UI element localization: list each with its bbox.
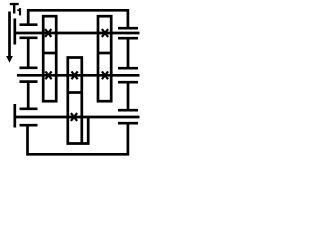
bottom rail wire [28,123,128,154]
node B wire [17,74,140,77]
x mark R2 upper [72,71,78,79]
capacitor C3 (left, node B to node C) [20,82,38,109]
resistor box R1 (left column) [43,16,56,101]
x mark R3 upper [102,29,108,37]
capacitor C8 (right, node C to bottom rail) [118,122,138,125]
capacitor C1 (left, top rail to node A) [20,23,38,26]
capacitor C4 (left, node C to bottom rail) [20,124,38,127]
x mark R2 lower [71,113,77,121]
top rail wire [28,10,128,28]
node C wire [16,116,140,119]
resistor box R3 (right column) [98,16,111,101]
x mark R3 lower [102,71,108,79]
capacitor C7 (right, node B to node C) [118,82,138,110]
x mark R1 lower [45,71,51,79]
resistor box R2 (middle column) [68,58,88,144]
x mark R1 upper [45,29,51,37]
terminal bar node A [13,19,16,45]
node A wire [16,32,140,35]
label T1 [10,3,21,16]
terminal bar node C [13,104,16,128]
capacitor C2 (left, node A to node B) [20,38,38,68]
capacitor C5 (right, top rail to node A) [118,27,138,30]
heat source arrow T1 [6,12,13,63]
capacitor C6 (right, node A to node B) [118,38,138,68]
